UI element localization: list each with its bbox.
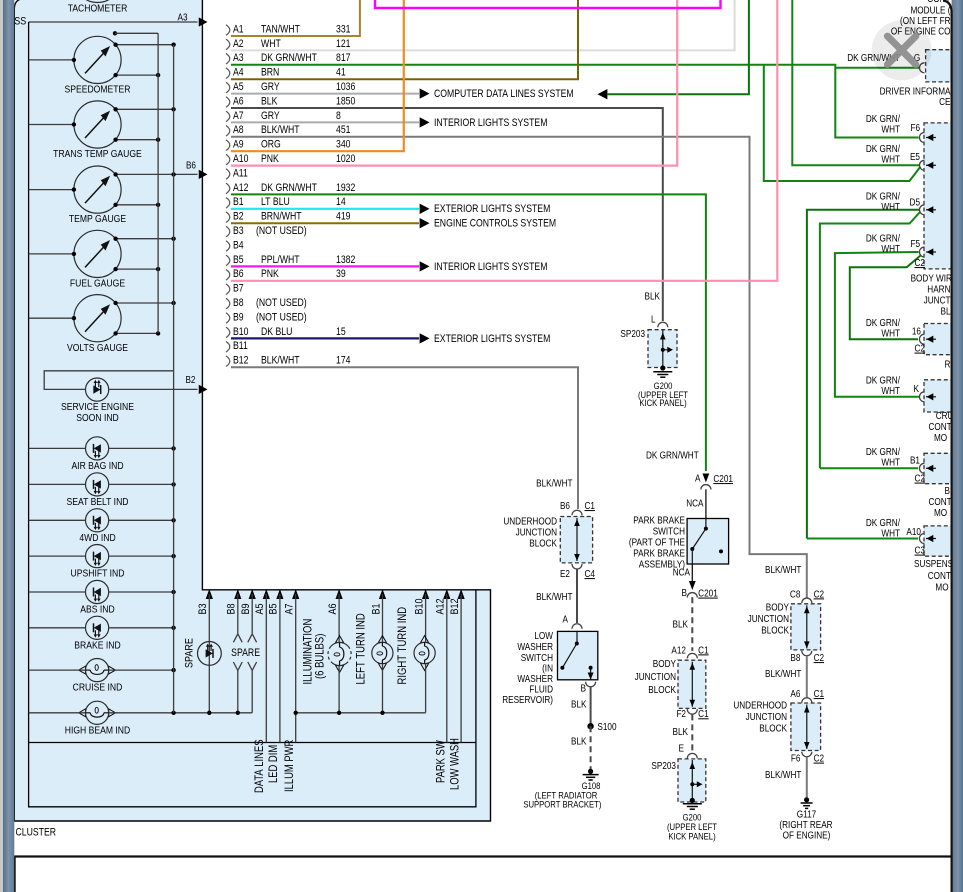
connector pin B3 bracket and label: [226, 225, 307, 237]
svg-text:B1: B1: [371, 603, 383, 614]
svg-text:39: 39: [336, 268, 346, 280]
wire BLK dashed to body junction block: [691, 597, 693, 651]
svg-text:SWITCH: SWITCH: [653, 526, 685, 537]
svg-text:PNK: PNK: [261, 268, 279, 280]
suspension control module box (dashed, pin A10): [924, 526, 958, 556]
svg-text:1020: 1020: [336, 153, 356, 165]
svg-text:A7: A7: [284, 603, 296, 614]
pin B6 exit arrow: [174, 173, 198, 175]
ground G200 lower (upper left kick panel): [690, 798, 695, 803]
svg-text:BLK/WHT: BLK/WHT: [765, 564, 802, 575]
svg-text:RESERVOIR): RESERVOIR): [502, 694, 553, 705]
wire A12 PARK SW: [446, 594, 448, 743]
connector pin B8 bracket and label: [226, 297, 307, 309]
splice SP203 lower internal wire: [691, 760, 693, 800]
wire BLK to splice S100: [590, 687, 592, 726]
lamp section pin B5 arrow at box top edge: [276, 589, 283, 599]
svg-text:HIGH BEAM IND: HIGH BEAM IND: [65, 725, 131, 737]
svg-text:14: 14: [336, 196, 346, 208]
svg-text:A1: A1: [233, 24, 244, 36]
svg-text:WHT: WHT: [881, 385, 900, 396]
svg-text:BODY WIRI: BODY WIRI: [911, 273, 955, 284]
system arrow EXTERIOR LIGHTS SYSTEM row B1: [420, 204, 430, 214]
svg-text:B11: B11: [233, 340, 248, 352]
wire branch A3 to pin E5 diagonal: [764, 65, 921, 181]
connector pin B10 bracket and label: [226, 326, 346, 338]
svg-text:C201: C201: [698, 588, 718, 599]
CLUSTER outer boundary box: [14, 0, 490, 821]
svg-text:B12: B12: [449, 598, 461, 614]
svg-text:MO: MO: [934, 507, 947, 518]
ground G108 (left radiator support bracket): [588, 769, 593, 774]
connector pin A7 bracket and label: [226, 110, 341, 122]
park brake switch contacts: [704, 527, 708, 531]
wire ABS IND to buses: [29, 591, 86, 593]
svg-text:BLK/WHT: BLK/WHT: [536, 591, 573, 602]
indicator CRUISE IND: [73, 659, 123, 694]
svg-text:BRAKE IND: BRAKE IND: [74, 640, 120, 652]
gauge inner bus wire x=158: [157, 33, 159, 333]
wire A8 BLK/WHT 451 to body junction block: [231, 137, 807, 598]
cruise module box (dashed, pin K): [924, 380, 958, 412]
svg-text:CRUISE IND: CRUISE IND: [73, 682, 123, 694]
svg-text:(NOT USED): (NOT USED): [256, 225, 307, 237]
svg-text:DRIVER INFORMA: DRIVER INFORMA: [880, 86, 952, 97]
svg-text:B9: B9: [233, 312, 244, 324]
connector pin A11 bracket and label: [226, 168, 248, 180]
svg-text:A6: A6: [327, 603, 339, 614]
svg-text:JUNCT: JUNCT: [924, 295, 951, 306]
svg-text:15: 15: [336, 326, 346, 338]
svg-text:BRN: BRN: [261, 67, 279, 79]
wire CRUISE IND to buses: [29, 669, 86, 671]
wire SEAT BELT IND to buses: [29, 483, 86, 485]
svg-text:SOON IND: SOON IND: [76, 412, 119, 424]
svg-text:419: 419: [336, 211, 351, 223]
pin A10: [919, 534, 924, 544]
svg-text:A12: A12: [671, 645, 686, 656]
indicator bus x=173.6 lower section: [173, 371, 175, 713]
wire BLK/WHT to ground G117: [806, 757, 808, 798]
svg-text:AIR BAG IND: AIR BAG IND: [71, 460, 123, 472]
lamp section pin B8 arrow at box top edge: [234, 589, 241, 599]
svg-text:B5: B5: [233, 254, 244, 266]
connector pin B11 bracket and label: [226, 340, 248, 352]
svg-text:A3: A3: [233, 52, 244, 64]
connector pin A3 bracket and label: [226, 52, 351, 64]
high beam ind bus wires: [29, 712, 86, 714]
svg-text:GRY: GRY: [261, 81, 280, 93]
gauge FUEL GAUGE: [29, 230, 176, 289]
svg-text:A10: A10: [233, 153, 249, 165]
svg-text:(6 BULBS): (6 BULBS): [314, 634, 327, 679]
pin B2 exit arrow: [199, 385, 208, 394]
svg-text:DK GRN/WHT: DK GRN/WHT: [646, 450, 699, 461]
svg-text:C3: C3: [914, 545, 924, 556]
pin K: [919, 392, 924, 402]
svg-text:UNDERHOOD: UNDERHOOD: [503, 516, 557, 527]
system arrow INTERIOR LIGHTS SYSTEM row A7: [420, 117, 430, 127]
svg-text:A5: A5: [254, 603, 266, 614]
wire A9 ORG 340: [231, 0, 404, 151]
wire B8 socket lower half: [233, 662, 242, 671]
wire into park brake switch: [705, 489, 707, 518]
svg-text:A12: A12: [233, 182, 248, 194]
lamp section pin B9 arrow at box top edge: [249, 589, 256, 599]
wire DK GRN/WHT to pin B1 body control module: [820, 467, 918, 469]
svg-text:C2: C2: [914, 257, 924, 268]
svg-text:C2: C2: [814, 652, 824, 663]
svg-text:TACHOMETER: TACHOMETER: [68, 3, 128, 15]
lamp section right bus segment: [296, 712, 426, 714]
wire DK GRN/WHT vertical from top to pin E5: [792, 0, 919, 165]
svg-text:BLK/WHT: BLK/WHT: [765, 769, 802, 780]
wire B8 to spare socket: [237, 594, 239, 634]
svg-text:4WD IND: 4WD IND: [79, 532, 115, 544]
svg-text:BLOCK: BLOCK: [529, 538, 557, 549]
svg-text:(NOT USED): (NOT USED): [256, 297, 307, 309]
indicator AIR BAG IND: [71, 437, 123, 472]
wire BLK/WHT to low washer switch: [576, 569, 578, 623]
svg-text:B4: B4: [233, 240, 244, 252]
indicator HIGH BEAM IND: [65, 701, 131, 736]
svg-text:WHT: WHT: [881, 528, 900, 539]
svg-text:C2: C2: [814, 589, 824, 600]
wire DK GRN/WHT pin F5 to pin K riser: [835, 252, 920, 397]
svg-text:F2: F2: [676, 708, 686, 719]
svg-text:BLK: BLK: [673, 726, 688, 737]
svg-text:LEFT TURN IND: LEFT TURN IND: [355, 613, 368, 685]
svg-text:B: B: [581, 683, 586, 694]
connector pin B2 bracket and label: [226, 211, 351, 223]
svg-text:(PART OF THE: (PART OF THE: [629, 537, 685, 548]
svg-text:A11: A11: [233, 168, 248, 180]
wire UPSHIFT IND to buses: [29, 555, 86, 557]
indicator 4WD IND: [79, 509, 115, 544]
wire A7 ILLUM PWR: [295, 594, 297, 743]
window right slate bar: [952, 0, 963, 892]
svg-text:A8: A8: [233, 124, 244, 136]
wire B1 LT BLU 14: [231, 208, 419, 210]
wire A10 PNK 1020: [231, 0, 677, 166]
wire DK GRN/WHT from module pin G: [835, 67, 919, 69]
pin B8 / C2: [802, 651, 812, 656]
underhood junction block right internal wire: [806, 705, 808, 750]
svg-text:TAN/WHT: TAN/WHT: [261, 24, 300, 36]
wire DK GRN/WHT to pin A10 suspension control module: [807, 538, 918, 540]
indicator SEAT BELT IND: [66, 473, 128, 508]
lamp section pin B12 arrow at box top edge: [458, 589, 465, 599]
svg-text:A: A: [695, 473, 701, 484]
wire DK GRN/WHT pin C2 diagonal to pin 16 riser: [850, 256, 921, 340]
body junction block right internal wire: [806, 605, 808, 648]
svg-text:DATA LINES: DATA LINES: [253, 739, 266, 793]
wire A4 BRN 41: [231, 0, 578, 79]
ground G200 (upper left kick panel): [660, 365, 665, 370]
svg-text:(RIGHT REAR: (RIGHT REAR: [779, 819, 833, 830]
svg-text:E: E: [679, 743, 684, 754]
svg-text:SPARE: SPARE: [231, 647, 260, 659]
wire B3 through spare LED to bus: [208, 594, 210, 713]
svg-text:C1: C1: [814, 688, 824, 699]
svg-text:16: 16: [912, 326, 921, 337]
svg-text:G117: G117: [797, 809, 816, 820]
svg-text:B10: B10: [233, 326, 249, 338]
svg-text:B: B: [945, 485, 950, 496]
svg-text:BLOCK: BLOCK: [648, 684, 676, 695]
svg-text:C2: C2: [914, 343, 924, 354]
ILLUMINATION 6 BULBS lamp on wire A6: [328, 594, 351, 713]
connector pin A4 bracket and label: [226, 67, 346, 79]
svg-text:BLK: BLK: [571, 736, 586, 747]
wire B5 PPL/WHT 1382: [231, 265, 419, 267]
svg-text:INTERIOR LIGHTS SYSTEM: INTERIOR LIGHTS SYSTEM: [434, 117, 547, 129]
svg-text:C1: C1: [584, 500, 594, 511]
wire BLK dashed to splice SP203: [691, 714, 693, 751]
svg-text:ORG: ORG: [261, 139, 281, 151]
svg-text:MODULE (: MODULE (: [910, 5, 950, 16]
svg-text:C1: C1: [698, 708, 708, 719]
svg-text:SP203: SP203: [651, 760, 676, 771]
wire A5 GRY 1036: [231, 93, 419, 95]
svg-text:ABS IND: ABS IND: [80, 604, 114, 616]
svg-text:LOW WASH: LOW WASH: [449, 738, 462, 790]
svg-text:41: 41: [336, 67, 346, 79]
svg-text:CONT: CONT: [929, 421, 953, 432]
svg-text:RIGHT TURN IND: RIGHT TURN IND: [396, 607, 409, 685]
pin E5 of driver information center: [919, 160, 924, 170]
svg-text:WHT: WHT: [261, 38, 281, 50]
wire green return to computer data lines arrow: [608, 0, 749, 94]
wire A6 BLK 1850 to splice SP203: [231, 108, 663, 321]
svg-text:451: 451: [336, 124, 351, 136]
svg-text:SUPPORT BRACKET): SUPPORT BRACKET): [523, 799, 601, 810]
svg-text:A2: A2: [233, 38, 244, 50]
svg-text:A12: A12: [435, 598, 447, 614]
indicator UPSHIFT IND: [71, 545, 125, 580]
svg-text:DK GRN/: DK GRN/: [866, 233, 901, 244]
connector pin B1 bracket and label: [226, 196, 346, 208]
svg-text:WHT: WHT: [881, 124, 900, 135]
svg-text:BRN/WHT: BRN/WHT: [261, 211, 302, 223]
body control module box (dashed, pin B1): [924, 453, 958, 483]
svg-text:340: 340: [336, 139, 351, 151]
pin A3 exit arrow on inner box edge: [199, 17, 208, 26]
park brake switch box: [687, 519, 729, 565]
connector pin A1 bracket and label: [226, 24, 351, 36]
lamp section pin A7 arrow at box top edge: [292, 589, 299, 599]
svg-text:MO: MO: [934, 432, 947, 443]
svg-text:WASHER: WASHER: [517, 673, 553, 684]
svg-text:S100: S100: [597, 721, 616, 732]
RIGHT TURN IND lamp on wire B10: [414, 594, 435, 713]
svg-text:B12: B12: [233, 355, 248, 367]
svg-text:A6: A6: [233, 96, 244, 108]
svg-text:LT BLU: LT BLU: [261, 196, 290, 208]
svg-text:NCA: NCA: [686, 498, 704, 509]
svg-text:JUNCTION: JUNCTION: [746, 711, 787, 722]
svg-text:BLK/WHT: BLK/WHT: [261, 355, 300, 367]
svg-text:CONT: CONT: [928, 570, 952, 581]
low washer switch contacts: [576, 631, 578, 643]
gauge TACHOMETER: [68, 0, 128, 15]
body junction block box (right): [791, 604, 821, 650]
gauge TRANS TEMP GAUGE: [29, 101, 176, 160]
svg-text:SP203: SP203: [620, 328, 645, 339]
wire A12 DK GRN/WHT 1932 to C201: [231, 194, 706, 471]
splice S100: [587, 723, 593, 729]
indicator ABS IND: [80, 580, 114, 615]
svg-text:UNDERHOOD: UNDERHOOD: [733, 700, 787, 711]
cluster inner box left/bottom/right edges: [29, 22, 476, 807]
svg-text:L: L: [651, 314, 656, 325]
svg-text:CE: CE: [939, 96, 950, 107]
svg-text:A10: A10: [906, 526, 921, 537]
svg-text:R: R: [945, 359, 951, 370]
diagram pane right border with rounded top corner: [943, 1, 952, 892]
svg-text:DK GRN/: DK GRN/: [866, 113, 901, 124]
svg-text:WHT: WHT: [881, 243, 900, 254]
pin 16: [919, 334, 924, 344]
svg-text:PPL/WHT: PPL/WHT: [261, 254, 300, 266]
svg-text:B1: B1: [233, 196, 244, 208]
splice SP203 box: [648, 330, 677, 368]
svg-text:B6: B6: [233, 268, 244, 280]
svg-text:1850: 1850: [336, 96, 356, 108]
pin F6 / C2: [802, 752, 812, 757]
svg-text:COMPUTER DATA LINES SYSTEM: COMPUTER DATA LINES SYSTEM: [434, 88, 574, 100]
svg-text:A9: A9: [233, 139, 244, 151]
svg-text:BLK/WHT: BLK/WHT: [536, 478, 573, 489]
cluster inner box top edge / tachometer wire to A3: [29, 21, 198, 23]
wire A2 WHT 121: [231, 0, 735, 50]
driver information center box (dashed): [924, 123, 958, 269]
gauge outer bus wire x=173.6 down to indicator section: [173, 45, 175, 371]
svg-text:A7: A7: [233, 110, 244, 122]
ground G117 (right rear of engine): [804, 797, 809, 802]
LEFT TURN IND lamp on wire B1: [372, 594, 393, 713]
svg-text:BLK: BLK: [645, 291, 660, 302]
svg-text:WHT: WHT: [881, 457, 900, 468]
svg-text:BODY: BODY: [766, 602, 789, 613]
connector pin A8 bracket and label: [226, 124, 351, 136]
wire BRAKE IND to buses: [29, 627, 86, 629]
svg-text:BLOCK: BLOCK: [759, 723, 787, 734]
svg-text:1932: 1932: [336, 182, 355, 194]
svg-text:B8: B8: [226, 603, 238, 614]
wire 4WD IND to buses: [29, 519, 86, 521]
system arrow ENGINE CONTROLS SYSTEM row B2: [420, 218, 430, 228]
pin F6 of driver information center: [919, 133, 924, 143]
svg-text:BLK: BLK: [261, 96, 278, 108]
svg-text:DK GRN/: DK GRN/: [866, 143, 901, 154]
wire DK GRN/WHT diagonal to pin D5 from B1 riser: [820, 212, 921, 469]
svg-text:817: 817: [336, 52, 351, 64]
wire A5 DATA LINES: [265, 594, 267, 743]
svg-text:VOLTS GAUGE: VOLTS GAUGE: [67, 342, 128, 354]
pin F2 / C1 of body junction block: [687, 709, 697, 714]
svg-text:GRY: GRY: [261, 110, 280, 122]
window left grey strip: [0, 0, 3, 892]
svg-text:JUNCTION: JUNCTION: [748, 613, 789, 624]
svg-text:B3: B3: [197, 603, 209, 614]
underhood junction block box (left): [560, 517, 592, 563]
gauge SPEEDOMETER: [29, 36, 176, 95]
tachometer lower pin stub wire: [113, 31, 158, 35]
svg-text:1036: 1036: [336, 81, 355, 93]
svg-text:B1: B1: [910, 455, 920, 466]
svg-text:SPEEDOMETER: SPEEDOMETER: [65, 84, 131, 96]
spare LED lamp: [198, 642, 222, 666]
svg-text:EXTERIOR LIGHTS SYSTEM: EXTERIOR LIGHTS SYSTEM: [434, 203, 550, 215]
svg-text:B9: B9: [240, 603, 252, 614]
svg-text:DK GRN/WHT: DK GRN/WHT: [261, 52, 317, 64]
diagram pane bottom border: [14, 855, 951, 857]
svg-text:B2: B2: [233, 211, 244, 223]
svg-text:DK BLU: DK BLU: [261, 326, 292, 338]
system arrow INTERIOR LIGHTS SYSTEM row B5: [420, 261, 430, 271]
svg-text:1382: 1382: [336, 254, 355, 266]
svg-text:C1: C1: [698, 645, 708, 656]
svg-text:SWITCH: SWITCH: [521, 652, 553, 663]
pin D5 of driver information center: [919, 205, 924, 215]
pin E2 / C4 of underhood junction block: [572, 564, 582, 569]
svg-text:CLUSTER: CLUSTER: [15, 827, 56, 839]
svg-text:BL: BL: [940, 306, 950, 317]
svg-text:A5: A5: [233, 81, 244, 93]
splice SP203 box (lower): [678, 759, 706, 802]
svg-text:KICK PANEL): KICK PANEL): [639, 397, 686, 408]
svg-text:B5: B5: [268, 603, 280, 614]
connector pin B6 bracket and label: [226, 268, 346, 280]
cluster bottom connector sub-box top edge: [29, 742, 476, 744]
svg-text:WHT: WHT: [881, 201, 900, 212]
svg-text:A6: A6: [790, 688, 800, 699]
svg-text:BLK: BLK: [571, 699, 586, 710]
indicator SERVICE ENGINE SOON IND: [61, 378, 134, 424]
lamp section pin A12 arrow at box top edge: [443, 589, 450, 599]
svg-text:ILLUM PWR: ILLUM PWR: [283, 739, 296, 792]
svg-text:A4: A4: [233, 67, 244, 79]
svg-text:174: 174: [336, 355, 351, 367]
wire B12 BLK/WHT 174 to underhood junction block: [231, 367, 578, 509]
svg-text:TEMP GAUGE: TEMP GAUGE: [69, 213, 126, 225]
indicator BRAKE IND: [74, 616, 120, 651]
svg-text:UPSHIFT IND: UPSHIFT IND: [71, 568, 125, 580]
svg-text:LOW: LOW: [534, 630, 553, 641]
svg-text:B8: B8: [233, 297, 244, 309]
wire B10 DK BLU 15: [231, 337, 419, 339]
system arrow EXTERIOR LIGHTS SYSTEM row B10: [420, 333, 430, 343]
svg-text:D5: D5: [910, 197, 920, 208]
svg-text:F6: F6: [910, 122, 920, 133]
svg-text:OF ENGINE): OF ENGINE): [783, 830, 831, 841]
connector pin A9 bracket and label: [226, 139, 351, 151]
svg-text:B6: B6: [560, 500, 570, 511]
svg-text:LED DIM: LED DIM: [267, 745, 280, 783]
gauge VOLTS GAUGE: [29, 295, 176, 354]
svg-text:FUEL GAUGE: FUEL GAUGE: [70, 278, 125, 290]
window left slate bar: [3, 0, 14, 892]
svg-text:DK GRN/: DK GRN/: [866, 317, 901, 328]
connector pin B12 bracket and label: [226, 355, 351, 367]
svg-text:SEAT BELT IND: SEAT BELT IND: [66, 496, 128, 508]
svg-text:EXTERIOR LIGHTS SYSTEM: EXTERIOR LIGHTS SYSTEM: [434, 333, 550, 345]
svg-text:K: K: [914, 383, 919, 394]
svg-text:CONT: CONT: [929, 496, 953, 507]
module box top right (dashed): [926, 50, 958, 82]
underhood junction block box (right): [791, 703, 821, 751]
